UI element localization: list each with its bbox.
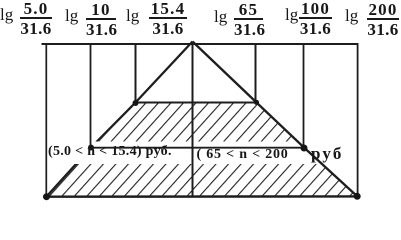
label lg 15.4/31.6 [126, 7, 139, 24]
node dot bottom-left corner [43, 193, 50, 200]
hatched trapezoid region [46, 103, 357, 197]
bottom text left [48, 145, 172, 159]
frame bottom [46, 195, 358, 198]
vertical line x=90.5 [90, 44, 92, 148]
vertical line x=135.5 [135, 44, 137, 103]
chord at y=102.5 [134, 102, 258, 104]
label lg 5.0/31.6 [0, 6, 13, 23]
frame top [42, 43, 359, 45]
triangle left side [46, 42, 192, 197]
label lg 200/31.6 [345, 7, 358, 24]
vertical line x=255.5 [255, 44, 257, 103]
triangle right side [193, 42, 358, 197]
node dot chord1 right [254, 100, 259, 105]
node dot chord1 left [133, 100, 139, 106]
label lg 100/31.6 [285, 6, 298, 23]
vertical line x=303.5 [303, 44, 305, 148]
node dot chord2 right [301, 145, 308, 152]
center vertical line [192, 42, 194, 197]
chord at y=147.5 [90, 147, 304, 149]
frame left [45, 44, 47, 197]
node dot bottom-right corner [354, 193, 361, 200]
bottom text right [197, 148, 289, 162]
bottom text rub [311, 147, 344, 161]
node dot chord2 left [88, 145, 94, 151]
label lg 10/31.6 [65, 7, 78, 24]
frame right [357, 44, 359, 196]
label lg 65/31.6 [214, 8, 227, 25]
white label band over hatching [48, 142, 346, 165]
